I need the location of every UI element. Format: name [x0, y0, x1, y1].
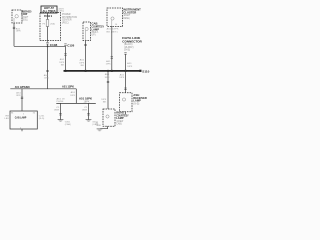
svg-text:CAB): CAB): [116, 122, 122, 125]
svg-text:18PK: 18PK: [79, 62, 84, 64]
rear courtesy lamp symbol: [106, 115, 109, 118]
wire fuse to pdc exit: [47, 27, 49, 42]
ashtray bottom stub: [125, 112, 127, 115]
svg-text:18PK: 18PK: [101, 99, 106, 101]
svg-text:(CAB): (CAB): [65, 123, 71, 126]
label left of cab courtesy wire: [79, 59, 85, 67]
lower run H3: [56, 102, 96, 104]
connector C108: [46, 43, 58, 47]
lower run H2: [10, 88, 76, 90]
svg-text:(CAB): (CAB): [92, 123, 98, 126]
svg-text:18PK: 18PK: [70, 95, 75, 97]
lower label on rear courtesy wire: [101, 99, 107, 104]
svg-text:18PK: 18PK: [127, 66, 132, 68]
connector tick on that wire: [64, 54, 66, 55]
svg-text:LAY: LAY: [5, 117, 10, 120]
power distribution center box: [40, 13, 61, 41]
svg-text:A51 12PK: A51 12PK: [62, 85, 74, 89]
wire bus down to ashtray: [125, 71, 127, 93]
svg-text:18PK: 18PK: [84, 101, 90, 104]
cab lamp module box: [10, 111, 37, 129]
tick on cluster wire: [111, 57, 113, 58]
connector on ashtray wire: [124, 88, 126, 89]
ground symbol right: [86, 120, 92, 122]
svg-text:A51 12PK/BK: A51 12PK/BK: [15, 85, 31, 89]
underhood lamp box: [12, 10, 22, 23]
right outside label: [39, 116, 45, 121]
ground label: [96, 123, 102, 127]
pdc label: [62, 13, 77, 24]
svg-text:18PK: 18PK: [59, 62, 64, 64]
wire hot box to fuse: [47, 13, 49, 20]
svg-text:A51 18: A51 18: [57, 97, 66, 100]
cluster lamp symbol: [111, 17, 114, 20]
wire feed down to lower run: [47, 44, 49, 89]
ashtray lamp symbol: [122, 98, 125, 101]
feed wire label: [44, 74, 49, 80]
ground symbol left: [58, 120, 64, 122]
wire bus down to rear courtesy: [107, 71, 109, 109]
drop H2 to H3: [75, 89, 77, 104]
wire DLC to bus: [125, 54, 127, 71]
node feed/H1 junction: [47, 46, 49, 48]
fuse 9: [46, 20, 49, 27]
svg-text:BK (M/T): BK (M/T): [107, 31, 118, 33]
label on H2-H3 drop: [70, 91, 76, 97]
label on ashtray wire: [119, 73, 125, 79]
svg-text:CAB LAMP: CAB LAMP: [15, 116, 27, 120]
ground drop right: [88, 103, 90, 119]
svg-text:DIESEL): DIESEL): [123, 17, 130, 20]
svg-text:FUSE 9: FUSE 9: [44, 14, 52, 18]
svg-text:12PK: 12PK: [44, 78, 49, 80]
wire underhood lamp down: [13, 23, 15, 46]
connector on rear courtesy wire: [107, 81, 109, 82]
ground symbol rear: [97, 129, 103, 131]
H3 right label: [79, 96, 92, 103]
svg-text:18PK: 18PK: [16, 95, 21, 97]
svg-text:18PK: 18PK: [16, 31, 21, 33]
left outside label: [5, 116, 10, 120]
label on drop: [16, 92, 22, 97]
HOT AT ALL TIMES box: [41, 6, 57, 13]
connector on underhood wire: [13, 27, 21, 32]
rear courtesy lamp box: [103, 109, 115, 126]
svg-text:PK/BK: PK/BK: [57, 101, 65, 103]
cab courtesy lamp box: [83, 22, 91, 41]
tick on feed wire: [46, 70, 48, 71]
svg-text:18PK: 18PK: [119, 77, 124, 79]
tick on cab courtesy wire: [84, 44, 86, 45]
ashtray label: [133, 93, 147, 105]
H3 left label: [57, 97, 66, 103]
rear courtesy label: [116, 111, 129, 126]
wire label left of x65 wire: [59, 58, 65, 66]
label right of DLC wire: [127, 62, 132, 68]
drop to cab lamp module: [21, 89, 23, 111]
label below bus on rear courtesy wire: [105, 73, 111, 79]
wire cluster to bus: [111, 27, 113, 71]
wire cab courtesy to bus: [85, 41, 87, 71]
svg-text:(9-5): (9-5): [39, 118, 45, 120]
instrument cluster box: [107, 8, 123, 27]
svg-text:(PDC): (PDC): [62, 21, 69, 24]
connector C126 at H1 right end: [64, 44, 75, 48]
underhood lamp symbol: [15, 15, 18, 18]
svg-text:18PK: 18PK: [105, 77, 110, 79]
label below cluster: [107, 28, 120, 34]
wire down from H1 to bus: [65, 46, 67, 71]
svg-text:18BK: 18BK: [82, 110, 88, 112]
ground wire from rear courtesy: [100, 126, 107, 128]
connector at DLC: [124, 53, 126, 54]
wire H1 horizontal: [14, 45, 66, 47]
svg-text:18PK: 18PK: [106, 64, 111, 66]
instrument cluster label: [123, 8, 141, 20]
svg-text:UP): UP): [92, 34, 96, 37]
svg-text:S110: S110: [142, 70, 149, 74]
data link connector label: [122, 36, 142, 51]
svg-text:20A: 20A: [50, 22, 55, 25]
svg-text:(9-5): (9-5): [133, 102, 139, 105]
underhood lamp label: [21, 9, 31, 21]
svg-text:(9-5): (9-5): [124, 48, 130, 51]
ashtray lamp box: [120, 93, 133, 112]
cab courtesy lamp label: [92, 22, 105, 37]
svg-text:18BK: 18BK: [54, 110, 60, 112]
svg-text:C126: C126: [67, 44, 75, 48]
ground drop left: [60, 103, 62, 119]
bus junction dots: [65, 70, 67, 72]
label on cluster wire: [106, 60, 112, 66]
splice bus S110: [64, 70, 141, 72]
svg-text:DIESEL): DIESEL): [21, 19, 28, 22]
cab courtesy lamp symbol: [85, 27, 88, 30]
svg-text:A51 18PK: A51 18PK: [107, 28, 120, 31]
note right of hot box: [59, 8, 65, 12]
connector on drop: [21, 97, 23, 98]
